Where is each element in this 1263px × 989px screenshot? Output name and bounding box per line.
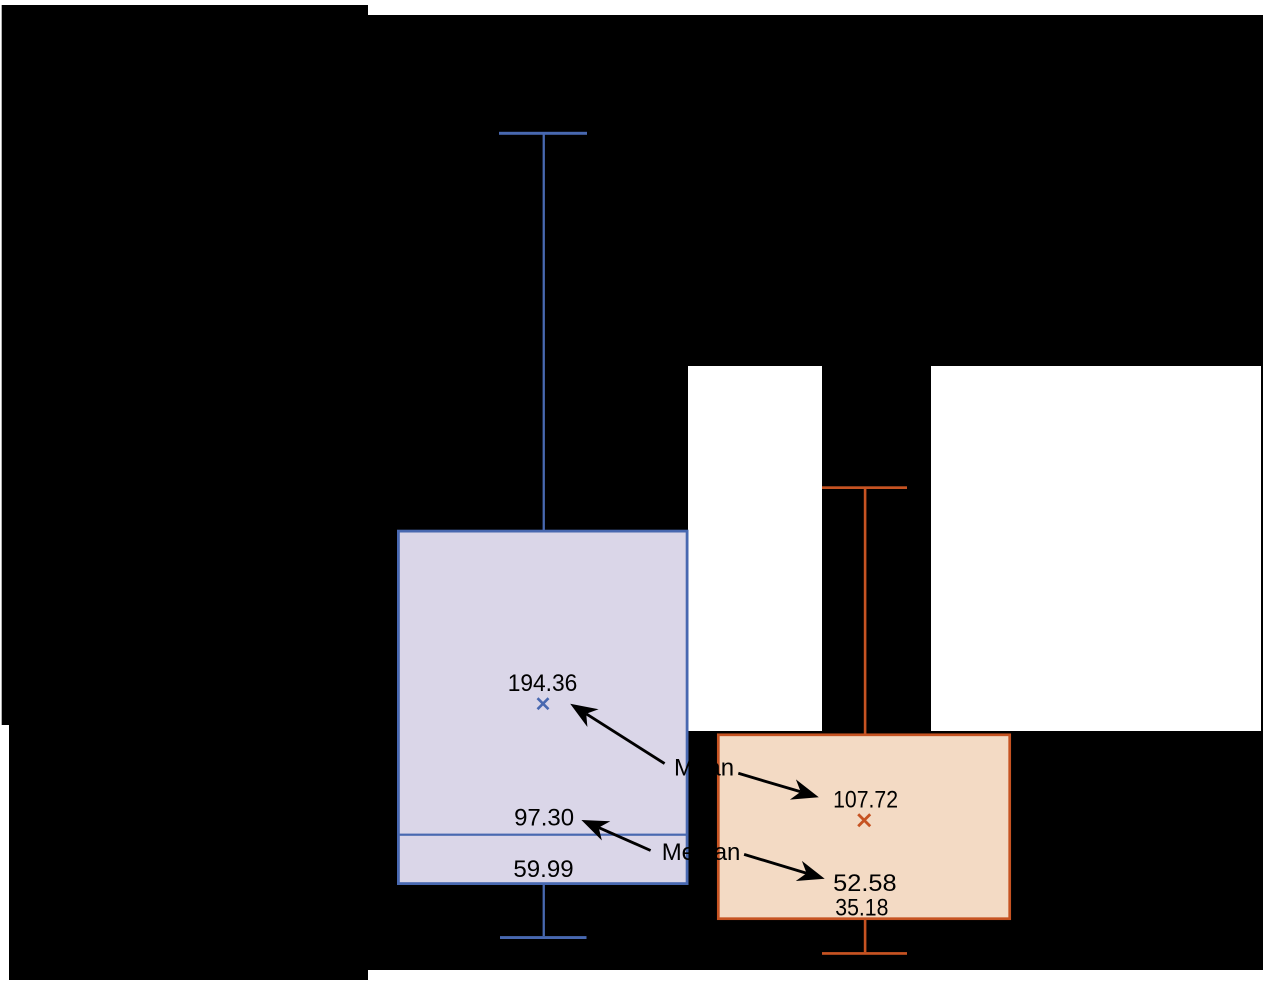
arrow Median to blue median	[599, 828, 651, 851]
orange top whisker cap	[822, 486, 907, 489]
orange box	[718, 735, 1009, 919]
blue mean x marker	[538, 698, 549, 709]
svg-text:97.30: 97.30	[514, 804, 574, 831]
svg-text:52.58: 52.58	[833, 870, 896, 897]
blue bottom whisker cap	[500, 936, 587, 939]
white strip top full width	[0, 0, 1263, 5]
svg-text:194.36: 194.36	[508, 670, 578, 697]
blue box	[398, 531, 687, 884]
arrow Mean to orange mean	[738, 773, 800, 792]
svg-text:35.18: 35.18	[835, 895, 888, 922]
svg-text:107.72: 107.72	[833, 787, 898, 814]
blue bottom whisker line	[543, 885, 545, 936]
blue median line	[398, 834, 688, 836]
svg-text:Mean: Mean	[674, 755, 734, 782]
blue top whisker line	[543, 134, 545, 530]
orange top whisker line	[864, 488, 867, 734]
white strip bottom right	[368, 970, 1263, 989]
svg-text:Median: Median	[662, 839, 741, 866]
orange bottom whisker cap	[822, 952, 907, 955]
white left edge thin	[0, 0, 2, 725]
white left edge wide	[0, 725, 9, 989]
orange mean x marker	[858, 814, 870, 826]
svg-text:59.99: 59.99	[513, 856, 573, 883]
arrow Median to orange median	[744, 854, 807, 873]
white column A	[688, 366, 822, 731]
white strip bottom full width	[0, 980, 1263, 989]
orange bottom whisker line	[864, 920, 867, 952]
arrow Mean to blue mean x	[586, 714, 664, 764]
white strip top right	[368, 0, 1263, 15]
white column B	[931, 366, 1261, 731]
blue top whisker cap	[499, 132, 587, 135]
